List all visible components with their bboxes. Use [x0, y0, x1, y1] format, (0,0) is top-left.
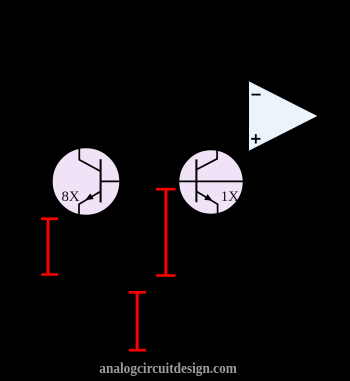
svg-text:1X: 1X — [221, 189, 239, 205]
svg-text:analogcircuitdesign.com: analogcircuitdesign.com — [99, 361, 237, 377]
svg-text:8X: 8X — [62, 189, 80, 205]
